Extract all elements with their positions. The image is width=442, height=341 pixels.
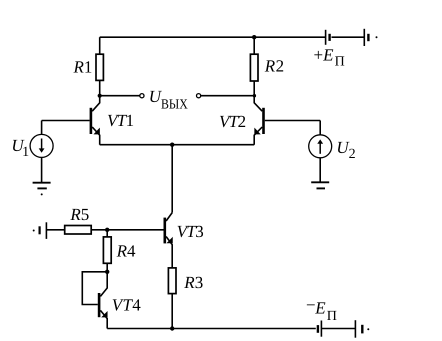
svg-text:R5: R5 <box>69 205 89 224</box>
svg-text:−: − <box>306 296 316 315</box>
svg-text:R2: R2 <box>264 57 285 76</box>
svg-text:VT3: VT3 <box>177 222 204 241</box>
svg-text:R1: R1 <box>73 58 93 77</box>
svg-text:VT1: VT1 <box>107 111 134 130</box>
svg-text:VT2: VT2 <box>219 112 246 131</box>
svg-text:R3: R3 <box>183 273 203 292</box>
svg-text:R4: R4 <box>116 241 136 260</box>
svg-text:VT4: VT4 <box>112 296 141 315</box>
